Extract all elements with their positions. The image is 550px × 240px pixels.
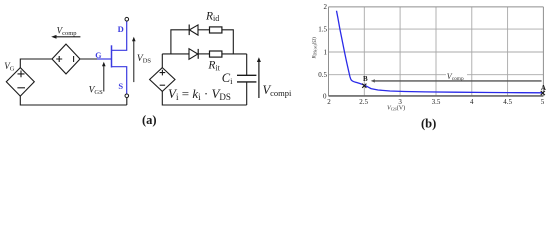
diode D1 (pointing left) — [188, 25, 190, 36]
top branch wire middle — [198, 29, 210, 31]
svg-text:4: 4 — [470, 98, 474, 106]
grid vertical lines — [364, 7, 507, 96]
grid horizontal lines — [329, 29, 544, 75]
svg-text:VGS(V): VGS(V) — [387, 104, 405, 111]
diode D2 (pointing right) — [189, 49, 198, 60]
wire Vi top to lower branch — [161, 54, 163, 68]
capacitor Ci top plate — [237, 74, 256, 76]
svg-text:4.5: 4.5 — [503, 98, 512, 106]
svg-text:5: 5 — [541, 98, 545, 106]
plot frame right — [542, 7, 544, 96]
lower branch wire middle — [198, 53, 209, 55]
wire S terminal to bottom rail — [126, 98, 128, 105]
marker x at B — [362, 84, 366, 88]
svg-text:B: B — [363, 75, 368, 83]
left arrowhead of Vcomp line — [371, 79, 375, 82]
resistor Rit — [210, 51, 222, 57]
wire VG top to comp source — [20, 59, 52, 68]
voltage source VG (diamond) — [6, 68, 34, 97]
svg-text:3.5: 3.5 — [432, 98, 441, 106]
dependent source Vcomp (diamond) — [52, 44, 80, 74]
white backing for Vcomp label — [446, 72, 467, 79]
svg-text:G: G — [95, 51, 101, 60]
plus sign inside Vi — [160, 70, 166, 76]
wire capacitor to bottom rail — [246, 82, 248, 105]
y tick labels — [318, 3, 327, 100]
transistor M1 drain lead — [112, 21, 127, 50]
curve RDS(on) vs VGS — [337, 11, 544, 93]
svg-text:S: S — [118, 81, 123, 91]
transistor M1 channel bar — [111, 45, 113, 67]
transistor M1 source lead — [112, 67, 127, 94]
minus sign inside VG — [17, 87, 25, 89]
svg-text:(b): (b) — [421, 116, 436, 130]
plus sign inside VG — [18, 71, 25, 78]
svg-text:(a): (a) — [142, 113, 157, 127]
svg-text:2.5: 2.5 — [359, 98, 368, 106]
plus sign inside Vcomp source — [56, 56, 62, 62]
svg-text:0.5: 0.5 — [318, 71, 327, 79]
annotation line Vcomp in plot — [374, 80, 542, 82]
minus sign inside Vi — [160, 84, 165, 86]
svg-text:RDS(on)(Ω): RDS(on)(Ω) — [313, 37, 318, 60]
marker x at A — [541, 91, 545, 95]
terminal S (circle) — [125, 94, 129, 98]
annotation arrow Vcompi — [258, 62, 260, 99]
top branch right rail — [222, 30, 233, 54]
x tick labels — [327, 98, 545, 106]
terminal D (circle) — [125, 17, 129, 21]
transistor M1 gate wire (blue) — [97, 58, 112, 60]
dependent source Vi (diamond) — [150, 68, 175, 92]
plot frame top — [329, 6, 544, 8]
x axis (bottom) — [329, 95, 544, 97]
svg-text:2: 2 — [324, 3, 328, 11]
lower branch wire left — [162, 53, 189, 55]
capacitor Ci bottom plate — [237, 81, 256, 83]
annotation arrow VDS — [133, 41, 135, 82]
wire comp source to gate — [80, 58, 98, 60]
minus sign (vertical bar) inside Vcomp source — [73, 56, 75, 62]
svg-text:2: 2 — [327, 98, 331, 106]
right vertical wire to capacitor — [246, 54, 248, 75]
top branch left rail — [171, 30, 189, 54]
plot frame left — [328, 7, 330, 96]
bottom wire middle circuit — [162, 91, 246, 105]
svg-text:1.5: 1.5 — [318, 25, 327, 33]
bottom wire circuit a — [20, 96, 127, 105]
annotation arrow Vcomp — [54, 36, 81, 38]
lower branch wire right — [222, 53, 247, 55]
annotation arrow VGS — [103, 65, 105, 92]
svg-text:1: 1 — [324, 48, 328, 56]
resistor Rid — [210, 27, 222, 33]
svg-text:A: A — [541, 84, 546, 92]
svg-text:D: D — [118, 24, 124, 34]
